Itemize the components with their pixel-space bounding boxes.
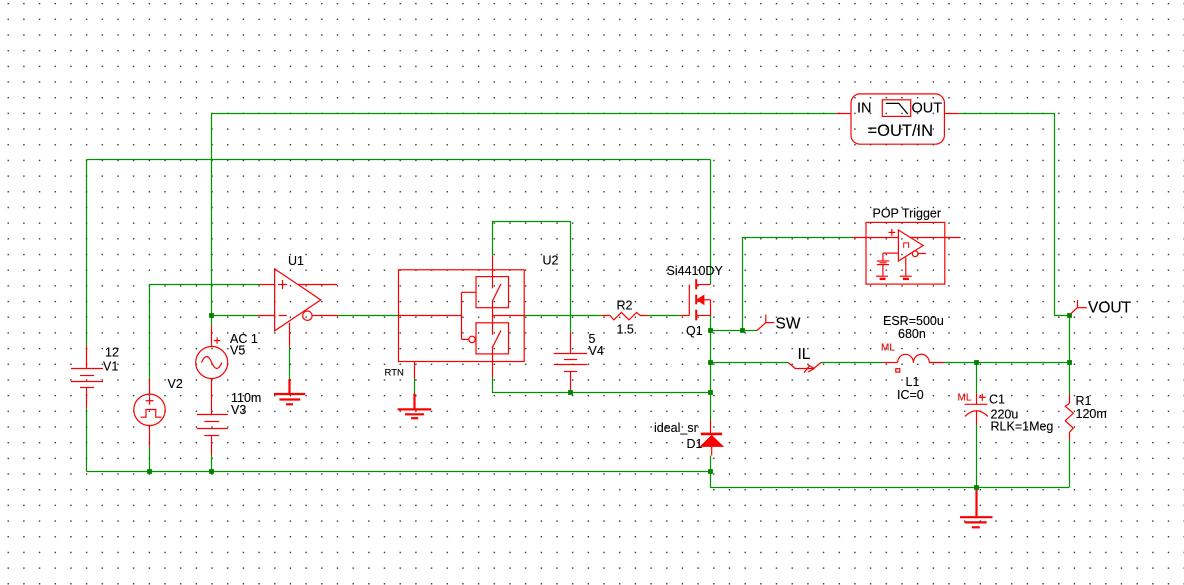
probe VOUT (1070, 300, 1087, 314)
svg-text:V4: V4 (589, 344, 604, 358)
red component graphics (71, 94, 1087, 527)
wire R1 top (1069, 316, 1071, 395)
wire U2 top loop to V4 (493, 222, 571, 333)
node V3 ground (209, 469, 214, 474)
diode D1 (701, 393, 723, 472)
svg-text:ideal_sr: ideal_sr (654, 421, 698, 435)
ground below RTN (398, 394, 432, 419)
svg-text:SW: SW (776, 315, 801, 332)
current probe IL (788, 363, 821, 373)
svg-text:D1: D1 (687, 437, 703, 451)
node V5 to U1 minus (209, 313, 214, 318)
svg-text:12: 12 (105, 346, 119, 360)
svg-text:C1: C1 (989, 392, 1005, 406)
wires and junctions (87, 114, 1070, 488)
wire Q1 drain column (710, 160, 712, 285)
node VOUT (1067, 313, 1072, 318)
battery V4 (554, 332, 588, 390)
svg-text:POP Trigger: POP Trigger (873, 206, 942, 220)
svg-text:OUT: OUT (912, 100, 943, 116)
svg-text:Q1: Q1 (686, 324, 703, 338)
pulse source V2 (134, 379, 165, 447)
svg-text:L1: L1 (906, 375, 920, 389)
capacitor C1 (965, 394, 988, 425)
inductor L1 (883, 354, 944, 372)
svg-text:IC=0: IC=0 (897, 388, 924, 402)
svg-text:120m: 120m (1076, 407, 1107, 421)
wire U2 out to R2 (524, 315, 602, 317)
wire R1 bottom (1069, 440, 1071, 487)
wire bottom ground rail (87, 471, 711, 473)
svg-text:U1: U1 (288, 254, 304, 268)
wire SW node (711, 238, 853, 331)
wire SW stub (743, 330, 758, 332)
wire V3 bottom (211, 455, 213, 472)
svg-text:V2: V2 (168, 377, 183, 391)
node IL branch (708, 360, 713, 365)
svg-text:IN: IN (857, 100, 872, 116)
wire C1 bottom (976, 425, 978, 487)
node C1 top (974, 360, 979, 365)
svg-text:680n: 680n (898, 327, 926, 341)
svg-text:ML: ML (958, 393, 972, 404)
svg-text:RTN: RTN (385, 368, 404, 379)
node D1 anode (708, 469, 713, 474)
probe SW (757, 315, 774, 331)
node SW branch (740, 328, 745, 333)
svg-text:U2: U2 (543, 254, 559, 268)
node U2 rail (708, 390, 713, 395)
wire D1 bottom rail jog (711, 472, 1070, 488)
svg-text:1.5: 1.5 (617, 322, 634, 336)
wire top rail to IN pin (212, 113, 837, 115)
node R1 top (1067, 360, 1072, 365)
ground below C1 (960, 490, 993, 528)
wire IL to L1 (821, 362, 883, 364)
wire V2 to U1 plus (150, 285, 260, 380)
transistor Q1 (680, 279, 711, 320)
wire OUT to VOUT column (959, 114, 1069, 316)
svg-text:R2: R2 (617, 298, 633, 312)
svg-text:Si4410DY: Si4410DY (667, 264, 724, 278)
wire C1 top stub (976, 363, 978, 394)
wire RTN gnd (414, 378, 416, 393)
wire U2 bottom to V4 rail (493, 377, 711, 393)
node Q1 source (708, 328, 713, 333)
resistor R2 (602, 312, 648, 320)
svg-text:V5: V5 (230, 344, 245, 358)
svg-text:RLK=1Meg: RLK=1Meg (991, 420, 1054, 434)
svg-text:V3: V3 (231, 403, 246, 417)
wire V1 top (86, 160, 88, 346)
svg-text:=OUT/IN: =OUT/IN (868, 122, 934, 140)
wire R2 to Q1 gate (648, 315, 680, 317)
wire IL left (711, 362, 789, 364)
wire U1 gnd (289, 347, 291, 379)
svg-text:IL: IL (798, 346, 811, 363)
wire L1 to C1 node (929, 362, 1069, 364)
svg-text:ESR=500u: ESR=500u (883, 314, 944, 328)
node V4 bottom (568, 390, 573, 395)
wire V1 bottom (86, 408, 88, 471)
wire Q1 source column (710, 316, 712, 393)
resistor R1 (1065, 394, 1073, 440)
ground below U1 (274, 379, 305, 404)
node V2 ground (147, 469, 152, 474)
svg-text:ML: ML (881, 342, 895, 353)
op-amp U1 (258, 269, 339, 347)
svg-text:V1: V1 (103, 359, 118, 373)
battery V1 (71, 346, 103, 409)
wire U1 out to U2 (338, 315, 398, 317)
wire junction to U1 minus (212, 315, 258, 317)
wire V2 bottom (149, 447, 151, 472)
wire 12V top rail (87, 159, 711, 161)
wire vertical V5 column (211, 114, 213, 327)
switch block U2 (399, 256, 525, 379)
node C1 bottom (974, 485, 979, 490)
svg-text:VOUT: VOUT (1088, 300, 1132, 317)
POP trigger block (852, 222, 961, 284)
AC source V5 (196, 326, 228, 415)
transfer function block =OUT/IN (836, 94, 959, 144)
battery V3 (197, 415, 228, 456)
